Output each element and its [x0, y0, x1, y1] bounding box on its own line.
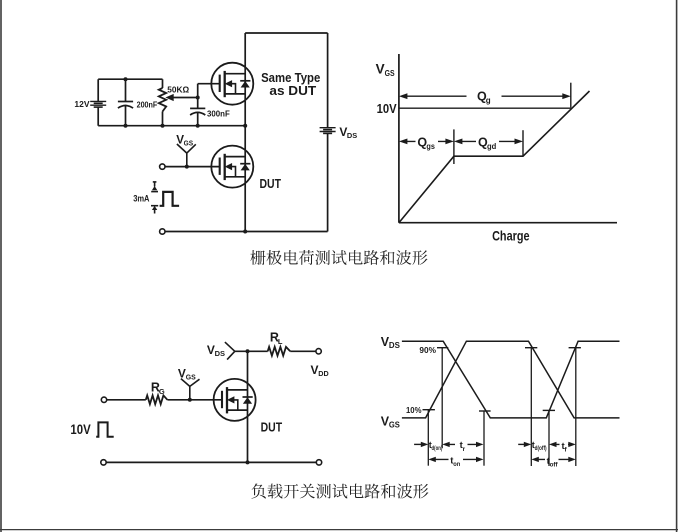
page border right [676, 0, 678, 532]
dimension Qgd [454, 139, 523, 145]
terminal bottom right lower [316, 460, 321, 465]
wire input to RG [107, 399, 146, 401]
dimension ton [428, 457, 483, 462]
dimension Qg [399, 93, 571, 99]
wire RG to gate [167, 399, 222, 401]
svg-text:off: off [550, 461, 559, 468]
svg-text:DS: DS [347, 131, 357, 140]
tick VGS 90% fall [525, 347, 537, 349]
label tr [460, 440, 466, 453]
svg-text:GS: GS [184, 138, 194, 147]
dimension td(off) [518, 442, 531, 447]
axis Y VGS [398, 54, 400, 223]
potentiometer leads [162, 79, 164, 126]
curve VGS vs charge [399, 91, 590, 223]
dimension Qgs [399, 139, 454, 145]
reference line t2 [441, 348, 443, 449]
wire drain node to RL [235, 350, 268, 352]
page border bottom [0, 529, 678, 531]
svg-text:GS: GS [389, 421, 401, 430]
svg-text:DS: DS [389, 341, 401, 350]
svg-text:10%: 10% [406, 405, 422, 415]
junction C1 bottom [124, 124, 128, 128]
junction wiper node [196, 96, 200, 100]
wire capacitor C1 leads [125, 79, 127, 126]
tick Qgs end [453, 129, 455, 164]
axis X Charge [399, 222, 617, 224]
svg-text:DUT: DUT [260, 176, 282, 191]
junction VGS probe [185, 165, 189, 169]
terminal bottom left lower [101, 460, 106, 465]
dimension td(on) [414, 442, 428, 447]
label tf [562, 441, 568, 454]
svg-text:300nF: 300nF [207, 108, 230, 118]
label RL [270, 331, 283, 346]
tick VDS 10% fall [479, 410, 491, 412]
wire bottom [165, 231, 328, 233]
svg-text:as DUT: as DUT [269, 83, 316, 98]
svg-text:DD: DD [318, 369, 329, 378]
wire top [245, 32, 327, 34]
svg-text:G: G [159, 387, 165, 396]
svg-text:V: V [376, 62, 385, 77]
wire bottom rail of gate-drive loop [98, 125, 245, 127]
wire top rail of gate-drive loop [98, 78, 162, 80]
svg-text:DUT: DUT [261, 420, 283, 435]
terminal input left [101, 397, 106, 402]
tick Qgd end [522, 130, 524, 156]
svg-text:10V: 10V [70, 421, 91, 437]
junction bottom rail [243, 230, 247, 234]
probe VGS [177, 144, 196, 167]
current source 3mA arrows [151, 182, 158, 214]
svg-text:10V: 10V [377, 102, 398, 116]
wire bottom lower [106, 461, 316, 463]
potentiometer R1 50KΩ [159, 88, 166, 112]
label Qgs [417, 135, 435, 151]
junction C1 top [124, 77, 128, 81]
wire wiper node vertical [197, 84, 199, 109]
battery B2 VDS [320, 128, 336, 134]
label td(off) [532, 440, 547, 452]
reference line t6 [575, 348, 577, 466]
label VGS [176, 133, 193, 147]
mosfet Q1 same type as DUT [211, 63, 253, 105]
junction source bottom [246, 460, 250, 464]
wire Q1 gate [198, 83, 220, 85]
svg-text:gd: gd [487, 142, 496, 151]
trace VDS [402, 341, 620, 418]
svg-text:GS: GS [186, 373, 196, 382]
reference line t1 [427, 410, 429, 466]
mosfet M2 DUT [214, 379, 256, 421]
svg-text:3mA: 3mA [133, 193, 149, 204]
label VGS axis [376, 62, 395, 79]
reference line t3 [483, 411, 485, 466]
label VDD [311, 363, 330, 378]
battery B1 12V [90, 101, 106, 107]
junction drain node [246, 349, 250, 353]
tick Qg end [570, 83, 572, 108]
tick 10% turn-on [423, 409, 435, 411]
label VDS [339, 125, 357, 140]
label VGS waveform [381, 415, 401, 430]
junction C2 bottom [196, 124, 200, 128]
capacitor C2 300nF [190, 108, 205, 115]
label VGS input [178, 366, 196, 381]
svg-text:DS: DS [215, 349, 225, 358]
wire Q2 gate [165, 166, 220, 168]
tick VDS 10% rise [543, 409, 555, 411]
wire battery 12V leads [97, 79, 99, 126]
junction R1 bottom [161, 124, 165, 128]
tick 90% turn-on [437, 347, 448, 349]
label td(on) [429, 440, 443, 452]
svg-text:Charge: Charge [492, 229, 530, 244]
reference line t5 [548, 410, 550, 466]
svg-text:90%: 90% [419, 345, 436, 355]
wire right side [327, 33, 329, 232]
terminal VDD [316, 349, 321, 354]
pulse symbol 10V [96, 422, 114, 436]
terminal bottom left [160, 229, 165, 234]
dimension tf [549, 442, 576, 447]
mosfet Q2 DUT [211, 146, 253, 188]
svg-text:L: L [278, 337, 283, 346]
capacitor C1 200nF [118, 102, 133, 109]
svg-text:gs: gs [426, 142, 435, 151]
label ton [450, 456, 460, 468]
svg-text:50KΩ: 50KΩ [167, 85, 189, 94]
junction gate-loop to rail [243, 124, 247, 128]
trace VGS [402, 341, 620, 418]
label Same Type as DUT [261, 70, 320, 98]
svg-text:d(on): d(on) [432, 445, 443, 452]
probe VGS input [181, 379, 200, 400]
svg-text:on: on [453, 461, 460, 468]
page border left [0, 0, 2, 532]
resistor RG [146, 395, 168, 404]
junction VGS probe node [188, 398, 192, 402]
svg-text:V: V [178, 366, 186, 380]
label toff [547, 456, 559, 468]
label Qg [477, 89, 491, 105]
wire RL to VDD terminal [290, 350, 316, 352]
reference line t4 [530, 348, 532, 466]
tick VDS 90% rise [569, 347, 581, 349]
wire drain-source vertical [247, 351, 249, 462]
label Qgd [478, 135, 496, 151]
label VDS waveform [381, 335, 401, 350]
resistor RL [268, 347, 291, 356]
caption gate charge test circuit and waveform [250, 250, 427, 265]
wiper arrow of potentiometer [165, 94, 197, 101]
svg-text:200nF: 200nF [137, 100, 158, 109]
pulse symbol 3mA [160, 192, 180, 206]
dimension tr [442, 442, 483, 447]
caption load switching test circuit and waveform [251, 484, 428, 499]
svg-text:g: g [486, 96, 491, 105]
line 10V level [399, 107, 571, 109]
wire main vertical drain-source rail [244, 33, 246, 232]
probe VDS drain [225, 342, 235, 360]
svg-text:d(off): d(off) [535, 445, 547, 452]
dimension toff [531, 457, 576, 462]
label VDS drain [207, 343, 225, 358]
svg-text:12V: 12V [74, 99, 90, 109]
wire C2 bottom lead [197, 112, 199, 126]
svg-text:GS: GS [385, 68, 395, 78]
label RG [151, 381, 165, 396]
terminal gate input [160, 164, 165, 169]
